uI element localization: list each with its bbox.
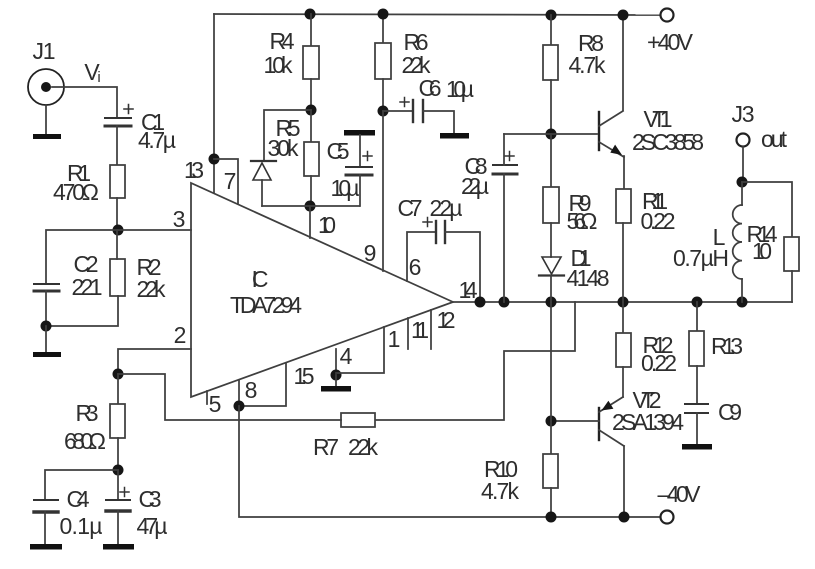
svg-text:R3: R3	[76, 400, 99, 426]
wire J3 down	[742, 147, 744, 182]
node rail R6	[378, 9, 389, 20]
svg-text:10k: 10k	[264, 52, 294, 78]
svg-text:C7: C7	[398, 195, 423, 221]
svg-text:+40V: +40V	[647, 29, 694, 55]
ground under C4	[30, 544, 62, 550]
svg-text:15: 15	[294, 363, 315, 389]
wire base node to R10	[550, 421, 552, 454]
wire pin 8	[238, 380, 240, 406]
wire R12 to VT2 emitter	[622, 367, 624, 397]
ground under J1	[33, 134, 61, 139]
node L output	[737, 297, 748, 308]
svg-text:4.7µ: 4.7µ	[138, 127, 176, 153]
svg-text:22k: 22k	[348, 434, 379, 460]
node input divider	[113, 225, 124, 236]
ground under C3	[103, 544, 134, 550]
resistor R13	[689, 331, 704, 366]
node pin10 junction	[305, 201, 316, 212]
ground pin4	[321, 386, 351, 392]
svg-text:R13: R13	[711, 333, 743, 359]
wire R9 top	[550, 134, 552, 187]
svg-text:C5: C5	[327, 138, 350, 164]
resistor R9	[543, 187, 559, 223]
resistor R2	[110, 259, 125, 296]
wire rail to R8	[550, 15, 552, 45]
svg-text:9: 9	[364, 240, 377, 266]
node pin2 R3 junction	[113, 369, 124, 380]
transistor VT1 2SC3858	[599, 111, 624, 157]
wire C3 top	[117, 470, 119, 500]
svg-text:3: 3	[173, 206, 186, 232]
ground under C6	[440, 133, 469, 139]
svg-text:i: i	[97, 69, 100, 86]
resistor R4	[303, 46, 319, 79]
svg-text:C3: C3	[139, 486, 162, 512]
wire rail to R4	[310, 14, 312, 46]
svg-text:0.1µ: 0.1µ	[60, 513, 103, 539]
wire pin 10	[309, 206, 311, 238]
svg-text:470Ω: 470Ω	[53, 179, 99, 205]
svg-text:680Ω: 680Ω	[64, 428, 106, 454]
capacitor C7	[423, 218, 445, 244]
node C2 ground junction	[41, 321, 52, 332]
terminal -40V	[661, 511, 674, 524]
wire C6 to ground	[423, 111, 454, 133]
svg-text:0.22: 0.22	[641, 350, 677, 376]
wire R5 top	[310, 110, 312, 142]
capacitor C4	[34, 500, 58, 512]
svg-text:TDA7294: TDA7294	[230, 292, 302, 318]
wire C4 to ground	[44, 512, 46, 544]
terminal +40V	[661, 9, 674, 22]
svg-text:14: 14	[459, 277, 478, 303]
wire R3 bottom	[117, 438, 119, 470]
svg-text:10µ: 10µ	[446, 76, 474, 102]
node rail VT1	[618, 10, 629, 21]
node R8 base junction	[546, 129, 557, 140]
inductor L 0.7uH	[733, 182, 742, 302]
wire VT1 emitter to R11	[623, 156, 625, 189]
node R6 C6 pin9	[378, 106, 389, 117]
svg-text:12: 12	[437, 307, 456, 333]
node R12 output	[618, 297, 629, 308]
ground under C9	[682, 444, 712, 450]
wire node to diode branch	[264, 110, 311, 161]
resistor R14	[784, 237, 799, 271]
wire R10 to rail	[550, 488, 552, 517]
resistor R8	[543, 45, 558, 80]
pin 11 tick	[407, 318, 409, 349]
resistor R6	[375, 43, 391, 79]
svg-text:2: 2	[174, 322, 187, 348]
svg-text:22k: 22k	[137, 276, 167, 302]
svg-text:8: 8	[245, 377, 258, 403]
wire diode to net	[261, 180, 263, 206]
wire R14 bottom	[791, 271, 793, 302]
wire pin13 drop from rail	[213, 14, 215, 193]
wire R6 to node	[382, 79, 384, 111]
wire VT2 base	[551, 420, 599, 422]
node VT2 base junction	[546, 416, 557, 427]
node rail R4	[305, 9, 316, 20]
wire J3 node to R14	[742, 182, 792, 237]
node C8 output	[499, 297, 510, 308]
diode D1	[539, 257, 564, 276]
wire R11 to output	[622, 223, 624, 302]
capacitor C5	[346, 152, 372, 176]
svg-text:R4: R4	[270, 28, 295, 54]
svg-text:10: 10	[752, 238, 772, 264]
svg-text:11: 11	[411, 317, 429, 343]
capacitor C9	[685, 404, 708, 413]
node R10 rail	[546, 512, 557, 523]
wire pin 9	[382, 111, 384, 271]
node pin4	[331, 370, 342, 381]
wire pin 15 stub	[239, 363, 286, 406]
svg-text:221: 221	[72, 274, 103, 300]
wire R1 to node	[116, 198, 118, 230]
capacitor C1	[105, 105, 133, 127]
wire R9 to D1	[550, 223, 552, 257]
connector J1	[28, 69, 64, 105]
resistor R10	[543, 454, 558, 488]
svg-text:7: 7	[224, 168, 237, 194]
wire base node to VT1	[504, 133, 597, 135]
node J3 junction	[737, 177, 748, 188]
svg-text:22µ: 22µ	[461, 173, 489, 199]
wire C8 bottom to output	[503, 174, 505, 302]
svg-text:0.7µH: 0.7µH	[673, 245, 729, 271]
svg-text:10µ: 10µ	[331, 175, 360, 201]
wire R8 to base node	[550, 80, 552, 134]
svg-text:J3: J3	[732, 101, 755, 127]
node R4 R5 junction	[306, 105, 317, 116]
node pin8 15 junction	[234, 401, 245, 412]
wire output to R12	[622, 302, 624, 333]
wire C5 bottom	[359, 175, 361, 206]
svg-text:R7: R7	[313, 434, 339, 460]
wire C1 to R1	[116, 126, 118, 165]
svg-text:2SC3858: 2SC3858	[632, 129, 704, 155]
node R13 output	[692, 297, 703, 308]
wire D1 node to base node	[550, 302, 552, 421]
ground bar above C5	[344, 130, 375, 136]
wire pin 4	[335, 349, 337, 375]
wire pin 6 to C7	[407, 232, 436, 281]
wire J1 to ground	[45, 105, 47, 134]
svg-text:56Ω: 56Ω	[567, 208, 598, 234]
svg-text:4: 4	[340, 343, 353, 369]
terminal J3	[737, 134, 750, 147]
svg-text:10: 10	[318, 212, 336, 238]
svg-text:2SA1394: 2SA1394	[612, 409, 684, 435]
wire VT2 collector to rail	[623, 446, 625, 517]
wire C2 to ground node	[45, 291, 47, 326]
svg-text:4148: 4148	[567, 265, 610, 291]
wire VT1 collector	[622, 15, 624, 110]
capacitor C2	[34, 284, 59, 291]
wire node to C6	[383, 110, 413, 112]
svg-text:1: 1	[388, 326, 401, 352]
svg-text:0.22: 0.22	[641, 208, 676, 234]
svg-text:C6: C6	[419, 75, 442, 101]
svg-text:4.7k: 4.7k	[569, 52, 607, 78]
wire R13 to C9	[696, 366, 698, 404]
wire pin8 to negative rail	[239, 406, 660, 517]
resistor R5	[304, 142, 319, 176]
node rail R8	[546, 10, 557, 21]
capacitor C8	[493, 152, 517, 175]
svg-text:22µ: 22µ	[430, 195, 463, 221]
wire C3 to ground	[117, 511, 119, 544]
node C7 output	[475, 297, 486, 308]
capacitor C3	[106, 488, 130, 512]
resistor R1	[110, 165, 125, 198]
svg-text:6: 6	[409, 254, 422, 280]
capacitor C6	[400, 98, 423, 123]
wire node to C2	[46, 230, 118, 284]
resistor R11	[616, 189, 631, 223]
wire C7 to output node	[445, 232, 480, 302]
wire R2 bottom to ground node	[46, 296, 118, 326]
node R3 C3 C4 junction	[113, 465, 124, 476]
wire R2 top	[116, 230, 118, 259]
wire rail to R6	[382, 14, 384, 43]
wire D1 to output node	[550, 276, 552, 302]
wire R5 bottom	[310, 176, 312, 206]
svg-text:5: 5	[209, 391, 222, 417]
wire input Vi	[52, 87, 117, 118]
wire junction to C4	[45, 470, 118, 500]
wire pin4 to ground	[335, 375, 337, 386]
diode D2 (zener by R5)	[251, 161, 276, 180]
svg-text:J1: J1	[33, 38, 56, 64]
wire C8 top	[503, 134, 505, 165]
transistor VT2 2SA1394	[599, 397, 624, 446]
wire feedback R7 path	[375, 302, 575, 420]
svg-text:C9: C9	[718, 399, 742, 425]
wire to ground	[45, 326, 47, 352]
pin 12 tick	[430, 310, 432, 349]
svg-text:30k: 30k	[268, 135, 300, 161]
node VT2 rail	[619, 512, 630, 523]
wire output to R13	[696, 302, 698, 331]
svg-text:13: 13	[184, 157, 204, 183]
svg-text:47µ: 47µ	[137, 513, 168, 539]
wire output node y302	[453, 301, 792, 303]
wire net under R5	[262, 205, 359, 207]
resistor R3	[110, 404, 125, 438]
op-amp IC TDA7294 triangle	[191, 183, 453, 397]
ground under C2	[33, 352, 61, 357]
wire top supply rail	[214, 14, 660, 15]
wire C9 to ground	[696, 413, 698, 444]
svg-text:C4: C4	[67, 486, 90, 512]
node pin13 junction	[209, 154, 220, 165]
wire pin 1 to pin4 node	[336, 327, 384, 373]
wire node to pin 3	[118, 229, 191, 231]
svg-text:IC: IC	[252, 266, 269, 292]
node D1 output	[546, 297, 557, 308]
resistor R7	[341, 413, 375, 427]
wire R3 top	[117, 374, 119, 404]
wire R4 to node	[310, 79, 312, 110]
pin 5 tick	[206, 391, 208, 404]
wire pin7 stub box	[214, 159, 238, 204]
svg-text:–40V: –40V	[658, 481, 702, 507]
wire pin 2	[118, 349, 191, 374]
svg-text:out: out	[761, 126, 788, 152]
wire R7 to pin2 node	[118, 374, 341, 420]
svg-text:4.7k: 4.7k	[481, 478, 520, 504]
resistor R12	[616, 333, 631, 367]
wire C5 top	[359, 135, 361, 167]
